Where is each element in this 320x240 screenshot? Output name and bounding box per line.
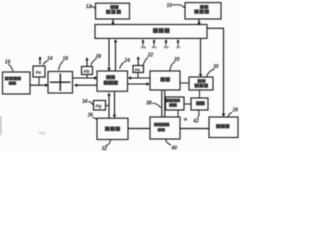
leader to generator [93, 118, 98, 121]
planetary gear unit box N [150, 117, 180, 139]
leader from box O [198, 110, 199, 118]
box M text line2 [169, 103, 177, 107]
box B text line2 [194, 9, 209, 13]
signal stub Pe into controller [153, 41, 155, 45]
leader to box E [59, 61, 64, 70]
box B text line1 [200, 5, 208, 9]
wire controller to box J [200, 38, 202, 75]
regulator text line2 [104, 81, 118, 85]
junction mark between planetary unit and transmission [184, 118, 187, 121]
transmission text [216, 124, 229, 128]
svg-text:42: 42 [192, 118, 199, 124]
leader from generator bottom [106, 140, 111, 147]
leader to box A [90, 6, 95, 8]
leader to F1 [43, 61, 48, 65]
signal stub Po into controller [165, 41, 167, 45]
svg-text:32: 32 [102, 146, 108, 151]
F1 stub to wire [38, 77, 40, 85]
box D: external charging device [3, 72, 31, 94]
transmission box P [209, 117, 238, 138]
wire J to O [199, 90, 201, 98]
battery cross [50, 74, 71, 92]
box D text line1 [5, 77, 21, 81]
svg-text:40: 40 [171, 146, 178, 152]
leader to box B [172, 5, 185, 8]
motor shaft double line [162, 90, 165, 117]
wire D to E [30, 84, 46, 86]
wire M to O [184, 103, 191, 105]
wire E to regulator (upper, arrow right) [73, 77, 96, 79]
sensor box H [133, 66, 144, 73]
motor text [160, 77, 169, 81]
leader from box N [166, 139, 172, 145]
generator box L [97, 118, 128, 139]
leader to K [89, 102, 94, 106]
K stub to wire [106, 105, 110, 107]
box J: storage device [189, 77, 213, 90]
svg-text:Pb: Pb [84, 69, 90, 74]
wire motor to regulator (upper, arrow left) [130, 77, 150, 79]
wire planetary unit to transmission [180, 128, 209, 130]
wire A to controller [112, 19, 114, 23]
regulator box G [97, 71, 128, 91]
svg-text:24: 24 [123, 58, 130, 64]
svg-text:26: 26 [232, 108, 239, 114]
scan artifact: left edge streak [0, 116, 2, 135]
signal stub Pi into controller [177, 41, 179, 45]
controller text [153, 28, 170, 33]
svg-text:34: 34 [82, 99, 88, 105]
signal stub Pb into controller [142, 41, 144, 45]
controller right elbow wire to transmission [207, 28, 224, 114]
scan artifact: bottom-left smudge [38, 131, 46, 134]
box B: mode selector (top right) [185, 3, 221, 19]
box J text line1 [198, 79, 206, 83]
regulator text line1 [106, 75, 115, 79]
wire generator up to regulator (up arrow) [108, 95, 110, 118]
svg-text:Pb: Pb [141, 46, 146, 50]
wire controller down to regulator (down arrow) [108, 38, 110, 69]
box D text line2 [9, 81, 16, 85]
svg-text:Pe: Pe [135, 67, 141, 72]
wire regulator down to generator (down arrow) [114, 91, 116, 115]
motor box I [150, 71, 180, 90]
battery box E [48, 72, 73, 94]
leader to shaft [152, 103, 161, 108]
svg-text:14: 14 [47, 56, 53, 62]
svg-text:36: 36 [88, 113, 94, 119]
svg-text:Pe: Pe [152, 46, 156, 50]
leader to box J [207, 69, 215, 77]
sensor box F1 [33, 66, 45, 77]
wire regulator to motor (lower, arrow right) [128, 83, 148, 85]
wire motor to J [180, 82, 189, 84]
leader to H [143, 57, 148, 65]
box O text [196, 101, 205, 105]
speed detection box M [166, 97, 185, 110]
wire regulator to E (lower, arrow left) [77, 84, 98, 86]
box M text line1 [166, 99, 181, 102]
wire B to controller [198, 19, 200, 23]
controller box [95, 25, 207, 39]
leader to transmission [228, 113, 232, 117]
sensor box F2 [82, 67, 93, 75]
box A: operating device (top middle-left) [96, 3, 130, 19]
svg-text:Po: Po [164, 46, 169, 50]
svg-text:Pg: Pg [96, 104, 102, 109]
wire generator to planetary unit [128, 128, 150, 130]
box N text line1 [154, 123, 169, 127]
box A text line1 [110, 5, 118, 9]
leader to regulator [120, 62, 124, 68]
box M stub to planetary unit [177, 110, 179, 117]
F2 stub to wire [86, 75, 88, 79]
svg-text:Pc: Pc [36, 70, 42, 75]
box J text line2 [195, 84, 209, 88]
svg-text:10: 10 [167, 3, 173, 9]
svg-text:38: 38 [146, 101, 152, 107]
generator text [105, 127, 120, 132]
leader to F2 [91, 59, 97, 66]
leader to box D [8, 64, 13, 71]
sensor box K [94, 101, 106, 111]
H stub to wire [137, 73, 139, 79]
svg-text:16: 16 [5, 60, 11, 66]
box N text line2 [158, 128, 165, 131]
box O [191, 98, 208, 110]
wire regulator up to controller (up arrow) [115, 42, 117, 72]
box A text line2 [106, 10, 121, 14]
leader to motor [170, 62, 175, 71]
